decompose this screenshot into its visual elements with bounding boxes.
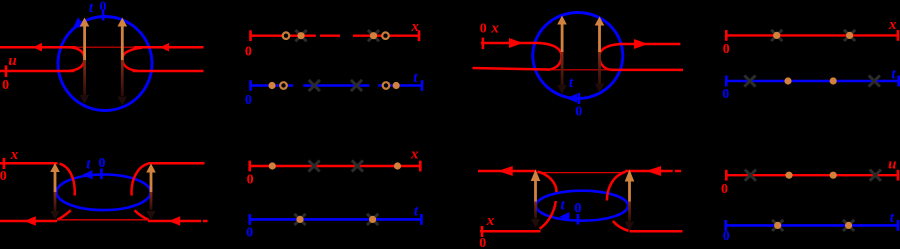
svg-text:0: 0 (99, 156, 106, 171)
blue t-line (250, 84, 422, 87)
right fold curve (122, 48, 142, 71)
left fold curve (58, 164, 75, 220)
red x-line (250, 165, 421, 167)
X+dot marker (843, 220, 854, 231)
blue t-line (726, 80, 898, 83)
dark down arrow right (150, 192, 153, 210)
svg-text:0: 0 (246, 226, 253, 241)
red x-line (250, 35, 419, 37)
blue flow arrowhead on ellipse top (83, 170, 93, 180)
thin red line between folds (57, 219, 148, 221)
red x-line (726, 34, 898, 36)
lower red line right segment (611, 69, 683, 72)
bottom red line thick right (148, 220, 201, 223)
upper red left arrowhead (33, 43, 42, 52)
upper red line left segment (481, 42, 541, 45)
dot marker (394, 162, 401, 169)
svg-text:0: 0 (723, 229, 730, 244)
X+dot marker (844, 30, 855, 41)
svg-text:0: 0 (245, 45, 252, 60)
circle K3 (533, 13, 623, 99)
orange up arrow left (83, 25, 86, 61)
ring marker (280, 82, 287, 89)
circle K1 (58, 17, 152, 111)
dark down arrow right (121, 60, 124, 96)
upper red line left segment (0, 46, 76, 49)
thin red line between folds (548, 69, 611, 71)
dark down arrow left (83, 60, 86, 96)
red x-line (726, 174, 898, 176)
blue flow arrowhead on ellipse bottom (560, 212, 570, 222)
upper red right-pointing arrowhead (509, 38, 523, 48)
orange up arrow right (121, 25, 124, 61)
svg-text:0: 0 (722, 87, 729, 102)
svg-text:0: 0 (247, 173, 254, 188)
svg-text:x: x (10, 147, 19, 163)
X marker (745, 170, 756, 181)
dark down arrow left (534, 202, 537, 219)
X+dot marker (772, 220, 783, 231)
ring marker (383, 82, 390, 89)
upper red right arrowhead (634, 39, 648, 49)
dot marker (830, 77, 837, 84)
X+dot marker (367, 214, 378, 225)
left fold curve (541, 43, 561, 70)
blue tick right (420, 214, 423, 225)
dash gaps (316, 33, 320, 39)
dark down arrow right (628, 202, 631, 222)
svg-text:x: x (486, 213, 495, 229)
X+dot marker (771, 30, 782, 41)
left fold curve (538, 172, 557, 229)
blue t-line (250, 218, 422, 221)
red tick right (897, 170, 900, 181)
lower red line right segment (133, 70, 204, 73)
red tick left (725, 30, 728, 41)
svg-text:u: u (8, 53, 16, 69)
blue flow arrowhead on circle (73, 17, 85, 28)
ring marker (283, 32, 290, 39)
lower red line left segment (473, 68, 550, 70)
blue flow arrowhead on circle bottom (567, 94, 578, 103)
dot marker (830, 172, 837, 179)
svg-text:0: 0 (2, 78, 9, 93)
red tick on x axis (482, 38, 485, 50)
X marker (869, 75, 880, 86)
blue t-line (726, 224, 898, 227)
blue tick left (248, 214, 251, 225)
dot marker (785, 172, 792, 179)
dot marker (784, 77, 791, 84)
X marker (744, 75, 755, 86)
dark down arrow right (598, 52, 601, 86)
lower red line left segment (0, 70, 75, 73)
svg-text:0: 0 (721, 182, 728, 197)
ellipse bottom tick (577, 214, 580, 225)
X marker (352, 160, 363, 171)
dot marker (268, 82, 275, 89)
bottom red right arrowhead (169, 216, 181, 226)
svg-text:x: x (888, 17, 897, 33)
svg-text:0: 0 (479, 236, 486, 249)
red tick left (249, 30, 252, 41)
X+dot marker (368, 30, 379, 41)
bottom red line right (630, 230, 683, 233)
X marker (351, 80, 362, 91)
bottom red left arrowhead (24, 216, 36, 226)
red tick on x axis (481, 226, 484, 237)
blue tick right (897, 76, 900, 87)
dot marker (269, 162, 276, 169)
dark down arrow left (561, 52, 564, 86)
circle bottom tick (578, 93, 581, 104)
svg-text:x: x (411, 19, 420, 35)
top red right arrowhead (646, 166, 661, 176)
circle top tick (102, 10, 105, 21)
svg-text:0: 0 (575, 104, 582, 119)
thin red line between folds (537, 172, 623, 174)
red tick left (725, 170, 728, 181)
ellipse top tick (100, 169, 103, 180)
X+dot marker (295, 30, 306, 41)
dash gaps (293, 83, 303, 89)
ring marker (382, 32, 389, 39)
top red line left (0, 162, 58, 165)
red tick right (897, 30, 900, 41)
orange up arrow right (150, 172, 153, 192)
right fold curve (599, 44, 618, 70)
right fold curve (607, 172, 629, 231)
svg-text:0: 0 (0, 169, 7, 184)
red tick on x axis (3, 158, 6, 169)
ellipse K7 (536, 191, 628, 221)
svg-text:0: 0 (245, 93, 252, 108)
bottom red line thick left (0, 220, 57, 223)
blue tick left (725, 76, 728, 87)
orange up arrow right (598, 24, 601, 53)
right fold curve (132, 164, 149, 220)
upper red line right segment (134, 46, 204, 49)
thin red line between folds (76, 46, 135, 48)
top red left arrowhead (498, 166, 513, 176)
orange up arrow left (54, 171, 57, 192)
ellipse K5 (57, 175, 151, 211)
dot marker (393, 82, 400, 89)
blue tick right (421, 80, 424, 91)
top red line thick left (478, 170, 537, 173)
blue tick left (249, 80, 252, 91)
bottom red line left (480, 230, 541, 233)
left fold curve (70, 47, 85, 71)
X marker (870, 170, 881, 181)
red tick left (248, 161, 251, 172)
X marker (309, 160, 320, 171)
svg-text:0: 0 (100, 0, 107, 15)
orange up arrow right (628, 181, 631, 202)
bottom red line end dash (203, 220, 208, 223)
dark down arrow left (54, 192, 57, 211)
X marker (309, 80, 320, 91)
X+dot marker (294, 214, 305, 225)
top red line end dash (675, 170, 681, 173)
upper red line right segment (619, 43, 681, 46)
svg-text:x: x (490, 21, 499, 37)
top red line thick right (625, 170, 673, 173)
svg-text:0: 0 (574, 201, 582, 217)
svg-text:u: u (888, 157, 896, 173)
orange up arrow left (534, 180, 537, 202)
svg-text:0: 0 (480, 22, 487, 37)
upper red right arrowhead (160, 43, 169, 52)
blue tick left (724, 220, 727, 231)
top red line right (148, 162, 205, 165)
red tick on u axis (5, 65, 8, 77)
svg-text:x: x (410, 147, 419, 163)
svg-text:0: 0 (723, 42, 730, 57)
red tick right (418, 30, 421, 41)
red tick right (419, 161, 422, 172)
orange up arrow left (561, 24, 564, 53)
blue tick right (897, 220, 900, 231)
